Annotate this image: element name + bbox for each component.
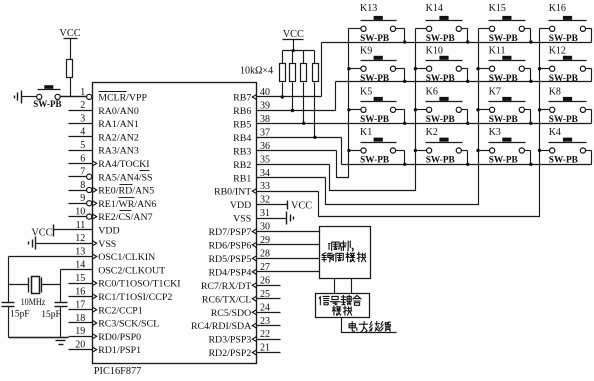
svg-text:K16: K16 bbox=[549, 3, 566, 14]
svg-text:15: 15 bbox=[75, 273, 85, 284]
svg-text:24: 24 bbox=[260, 302, 270, 313]
svg-text:RA3/AN3: RA3/AN3 bbox=[98, 146, 139, 157]
svg-text:23: 23 bbox=[260, 316, 270, 327]
svg-text:K9: K9 bbox=[360, 46, 372, 57]
svg-text:K1: K1 bbox=[360, 127, 372, 138]
svg-text:RE1/WR/AN6: RE1/WR/AN6 bbox=[98, 199, 156, 210]
svg-text:4: 4 bbox=[80, 127, 85, 138]
svg-text:K2: K2 bbox=[426, 127, 438, 138]
svg-text:14: 14 bbox=[75, 260, 85, 271]
svg-text:VSS: VSS bbox=[233, 214, 251, 225]
svg-text:OSC2/CLKOUT: OSC2/CLKOUT bbox=[98, 265, 165, 276]
svg-text:K15: K15 bbox=[489, 3, 506, 14]
svg-text:SW-PB: SW-PB bbox=[549, 114, 579, 125]
svg-text:RA0/AN0: RA0/AN0 bbox=[98, 106, 139, 117]
svg-text:SW-PB: SW-PB bbox=[360, 73, 390, 84]
svg-text:34: 34 bbox=[260, 168, 270, 179]
svg-text:15pF: 15pF bbox=[10, 309, 30, 320]
svg-text:20: 20 bbox=[75, 340, 85, 351]
svg-text:13: 13 bbox=[75, 246, 85, 257]
svg-text:RE2/CS/AN7: RE2/CS/AN7 bbox=[98, 212, 152, 223]
svg-text:12: 12 bbox=[75, 233, 85, 244]
svg-text:SW-PB: SW-PB bbox=[489, 155, 519, 166]
svg-text:10: 10 bbox=[75, 207, 85, 218]
svg-text:RD2/PSP2: RD2/PSP2 bbox=[208, 348, 251, 359]
svg-text:9: 9 bbox=[80, 193, 85, 204]
svg-text:VCC: VCC bbox=[59, 28, 80, 39]
svg-text:SW-PB: SW-PB bbox=[426, 155, 456, 166]
svg-text:10MHz: 10MHz bbox=[21, 297, 46, 308]
svg-text:VCC: VCC bbox=[31, 227, 52, 238]
svg-text:RC6/TX/CL: RC6/TX/CL bbox=[202, 294, 251, 305]
svg-text:RB1: RB1 bbox=[233, 173, 251, 184]
svg-text:RC4/RDI/SDA: RC4/RDI/SDA bbox=[191, 321, 252, 332]
svg-text:SW-PB: SW-PB bbox=[549, 33, 579, 44]
svg-text:28: 28 bbox=[260, 249, 270, 260]
svg-text:RD5/PSP5: RD5/PSP5 bbox=[208, 254, 251, 265]
svg-text:RB7: RB7 bbox=[233, 93, 251, 104]
svg-text:SW-PB: SW-PB bbox=[549, 155, 579, 166]
svg-text:8: 8 bbox=[80, 180, 85, 191]
svg-text:K13: K13 bbox=[360, 3, 377, 14]
svg-text:RC2/CCP1: RC2/CCP1 bbox=[98, 305, 143, 316]
svg-text:SW-PB: SW-PB bbox=[360, 114, 390, 125]
svg-text:7: 7 bbox=[80, 167, 85, 178]
svg-text:37: 37 bbox=[260, 127, 270, 138]
svg-text:SW-PB: SW-PB bbox=[489, 33, 519, 44]
svg-text:25: 25 bbox=[260, 289, 270, 300]
svg-text:21: 21 bbox=[260, 343, 270, 354]
svg-text:K5: K5 bbox=[360, 86, 372, 97]
svg-text:RB0/INT: RB0/INT bbox=[214, 187, 251, 198]
svg-text:35: 35 bbox=[260, 154, 270, 165]
svg-text:31: 31 bbox=[260, 208, 270, 219]
svg-text:SW-PB: SW-PB bbox=[426, 33, 456, 44]
svg-text:RA1/AN1: RA1/AN1 bbox=[98, 119, 139, 130]
svg-text:27: 27 bbox=[260, 262, 270, 273]
svg-text:RC5/SDO: RC5/SDO bbox=[211, 308, 252, 319]
svg-text:39: 39 bbox=[260, 101, 270, 112]
svg-text:RE0/RD/AN5: RE0/RD/AN5 bbox=[98, 186, 154, 197]
svg-text:22: 22 bbox=[260, 329, 270, 340]
svg-text:VCC: VCC bbox=[291, 201, 312, 212]
svg-text:RC0/T1OSO/T1CKI: RC0/T1OSO/T1CKI bbox=[98, 279, 180, 290]
svg-text:19: 19 bbox=[75, 326, 85, 337]
svg-text:RB4: RB4 bbox=[233, 133, 251, 144]
svg-text:VSS: VSS bbox=[98, 239, 116, 250]
svg-text:SW-PB: SW-PB bbox=[426, 73, 456, 84]
svg-text:SW-PB: SW-PB bbox=[549, 73, 579, 84]
svg-text:RA5/AN4/SS: RA5/AN4/SS bbox=[98, 172, 152, 183]
svg-text:RD0/PSP0: RD0/PSP0 bbox=[98, 332, 141, 343]
svg-text:K12: K12 bbox=[549, 46, 566, 57]
svg-text:15pF: 15pF bbox=[41, 309, 61, 320]
svg-text:RD6/PSP6: RD6/PSP6 bbox=[208, 241, 251, 252]
svg-text:SW-PB: SW-PB bbox=[489, 114, 519, 125]
svg-text:K14: K14 bbox=[426, 3, 443, 14]
svg-text:5: 5 bbox=[80, 140, 85, 151]
svg-text:10kΩ×4: 10kΩ×4 bbox=[240, 66, 273, 77]
svg-text:16: 16 bbox=[75, 286, 85, 297]
svg-text:RB3: RB3 bbox=[233, 146, 251, 157]
svg-text:RD1/PSP1: RD1/PSP1 bbox=[98, 345, 141, 356]
svg-text:SW-PB: SW-PB bbox=[360, 155, 390, 166]
svg-text:K10: K10 bbox=[426, 46, 443, 57]
svg-text:40: 40 bbox=[260, 87, 270, 98]
svg-text:6: 6 bbox=[80, 153, 85, 164]
svg-text:RD4/PSP4: RD4/PSP4 bbox=[208, 268, 251, 279]
svg-text:3: 3 bbox=[80, 113, 85, 124]
svg-text:VCC: VCC bbox=[283, 29, 304, 40]
svg-text:RA2/AN2: RA2/AN2 bbox=[98, 132, 139, 143]
svg-text:K7: K7 bbox=[489, 86, 501, 97]
svg-text:K8: K8 bbox=[549, 86, 561, 97]
svg-text:18: 18 bbox=[75, 313, 85, 324]
svg-text:32: 32 bbox=[260, 195, 270, 206]
svg-text:SW-PB: SW-PB bbox=[489, 73, 519, 84]
svg-text:17: 17 bbox=[75, 300, 85, 311]
svg-text:K6: K6 bbox=[426, 86, 438, 97]
svg-text:K11: K11 bbox=[489, 46, 506, 57]
svg-text:RA4/TOCKI: RA4/TOCKI bbox=[98, 159, 149, 170]
svg-text:29: 29 bbox=[260, 235, 270, 246]
svg-text:VDD: VDD bbox=[98, 226, 119, 237]
svg-text:SW-PB: SW-PB bbox=[33, 100, 61, 110]
svg-text:30: 30 bbox=[260, 222, 270, 233]
svg-text:RD3/PSP3: RD3/PSP3 bbox=[208, 335, 251, 346]
svg-text:RC3/SCK/SCL: RC3/SCK/SCL bbox=[98, 319, 159, 330]
svg-text:26: 26 bbox=[260, 275, 270, 286]
svg-text:33: 33 bbox=[260, 181, 270, 192]
svg-text:SW-PB: SW-PB bbox=[426, 114, 456, 125]
svg-text:RD7/PSP7: RD7/PSP7 bbox=[208, 227, 251, 238]
svg-text:11: 11 bbox=[76, 220, 86, 231]
svg-text:SW-PB: SW-PB bbox=[360, 33, 390, 44]
svg-text:K3: K3 bbox=[489, 127, 501, 138]
svg-text:RB5: RB5 bbox=[233, 120, 251, 131]
svg-text:RC7/RX/DT: RC7/RX/DT bbox=[201, 281, 251, 292]
svg-text:RC1/T1OSI/CCP2: RC1/T1OSI/CCP2 bbox=[98, 292, 172, 303]
svg-text:PIC16F877: PIC16F877 bbox=[94, 366, 142, 377]
svg-text:RB6: RB6 bbox=[233, 106, 251, 117]
svg-text:VDD: VDD bbox=[230, 200, 251, 211]
svg-text:OSC1/CLKIN: OSC1/CLKIN bbox=[98, 252, 155, 263]
svg-text:MCLR/VPP: MCLR/VPP bbox=[98, 93, 147, 104]
svg-text:36: 36 bbox=[260, 141, 270, 152]
svg-text:2: 2 bbox=[80, 100, 85, 111]
svg-text:K4: K4 bbox=[549, 127, 561, 138]
svg-text:RB2: RB2 bbox=[233, 160, 251, 171]
